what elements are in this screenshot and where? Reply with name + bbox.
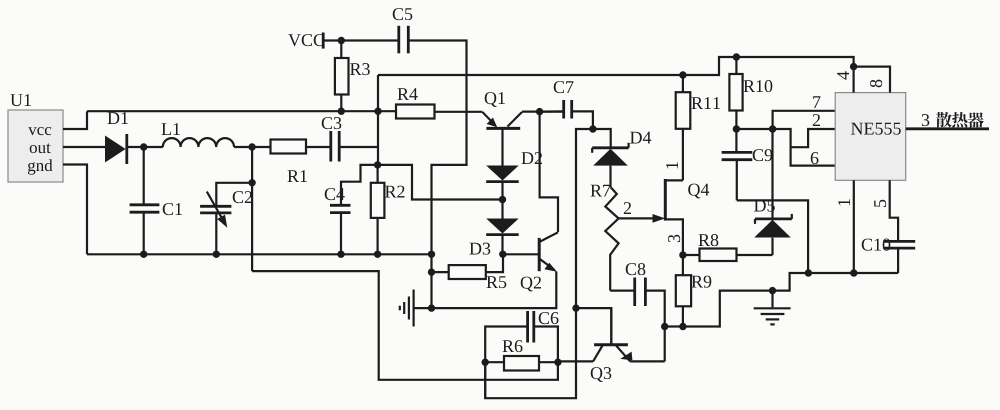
label C1 (163, 203, 182, 215)
node C2 tap (248, 179, 255, 186)
resistor R9 (676, 255, 691, 327)
wire C2 top (216, 183, 252, 206)
inductor L1 (163, 138, 234, 147)
label R6 (503, 340, 523, 352)
wire staircase to D2/D3 (378, 165, 503, 200)
wire pin1 (853, 180, 855, 273)
wire C6 left (485, 327, 527, 399)
wire C9 bottom elbow (737, 200, 808, 273)
wire bottom bus (87, 253, 432, 255)
resistor R3 (335, 41, 349, 112)
label R10 (744, 80, 773, 92)
diode D3 (486, 219, 519, 255)
pin label gnd (28, 159, 53, 174)
label pin2 (813, 114, 820, 126)
label pin1 555 (838, 199, 850, 205)
node x576 rail (572, 304, 579, 311)
transistor Q3 (593, 308, 632, 361)
resistor R4 (396, 105, 435, 119)
node D2/D3 (499, 196, 506, 203)
label Q4 (688, 184, 709, 199)
label output text (936, 112, 984, 128)
diode D2 (486, 130, 519, 219)
label C10 (862, 239, 891, 251)
node D1/C1/L1 (140, 143, 147, 150)
node ground2 (769, 287, 776, 294)
node C1 ground (140, 251, 147, 258)
wire Q1 collector (522, 110, 563, 112)
label R7 (591, 185, 611, 197)
label L1 (162, 123, 180, 135)
resistor R1 (271, 140, 307, 154)
label C9 (753, 149, 773, 161)
node B (374, 161, 381, 168)
node C2 ground (213, 251, 220, 258)
IC U1 box (8, 110, 63, 182)
resistor R6 (485, 356, 558, 371)
node D3/R5/Q2 (499, 251, 506, 258)
node pin1 bus (850, 269, 857, 276)
label R3 (350, 63, 370, 75)
label C3 (322, 117, 342, 129)
node gnd rail top (428, 251, 435, 258)
node L1/R1 (248, 143, 255, 150)
label Q1 (485, 92, 505, 107)
node pins 4/8 (850, 63, 857, 70)
label D4 (630, 132, 651, 144)
label pin3 output 3 (922, 114, 929, 126)
node R9 bottom (679, 323, 686, 330)
wire C5 right down (408, 41, 466, 309)
node Q4/R8/R9 (679, 251, 686, 258)
node R6 right (554, 359, 561, 366)
label D5 (754, 200, 775, 212)
node Q1/C7 (536, 108, 543, 115)
node pin7 (769, 125, 776, 132)
label C7 (554, 81, 574, 93)
node gnd rail R5 (428, 268, 435, 275)
wire L1 to R1 (234, 146, 271, 148)
ground symbol left (400, 290, 432, 327)
wire C6 right (534, 327, 558, 363)
wire pin4 (852, 67, 854, 93)
node R10 top (733, 53, 740, 60)
capacitor C6 (528, 311, 534, 343)
wire pin2/6 (773, 129, 836, 166)
label NE555 (851, 123, 901, 135)
capacitor C3 (331, 131, 339, 162)
label pin6 (811, 152, 819, 164)
wire R7 wiper to Q4 (619, 214, 666, 223)
label Q3 (591, 367, 612, 382)
label R11 (692, 97, 720, 109)
label pin3 Q4 (668, 235, 680, 242)
node bottom bus D5 (805, 269, 812, 276)
wire ground bus (432, 272, 557, 309)
label pin2 Q4 (624, 202, 631, 214)
label R2 (385, 186, 404, 198)
IC NE555 box (835, 93, 906, 181)
resistor R8 (683, 249, 773, 262)
node R10 bottom (733, 125, 740, 132)
diode D1 (105, 134, 127, 164)
label D3 (470, 243, 491, 255)
capacitor C4 (330, 205, 351, 254)
resistor R11 (676, 75, 691, 180)
label D1 (108, 112, 128, 124)
wire top bus left (87, 110, 396, 112)
wire U1 gnd to bottom bus (63, 165, 87, 255)
wire pin5 (890, 180, 898, 240)
resistor R2 (371, 165, 385, 254)
pin label out (30, 143, 51, 153)
node C8/Q3 (661, 323, 668, 330)
transistor Q2 (539, 232, 558, 271)
wire node B vertical (377, 75, 379, 165)
wire Q3 left lead (558, 360, 593, 362)
wire node to D4 (593, 129, 611, 147)
label pin1 Q4 (666, 162, 678, 168)
wire U1 vcc to top bus (63, 111, 87, 129)
capacitor C5 (399, 26, 409, 54)
wire pin2 branch (791, 129, 836, 147)
label C2 (233, 191, 252, 203)
wire VCC to C5 (323, 39, 399, 41)
wire R7 to C8 (610, 290, 634, 292)
node C4 ground (337, 251, 344, 258)
resistor R10 (729, 57, 742, 129)
node VCC/R3 (338, 37, 345, 44)
wire bus75 (378, 57, 854, 75)
node R2 ground (374, 251, 381, 258)
transistor Q4 UJT (665, 179, 683, 255)
label C8 (626, 263, 646, 275)
label pin7 (813, 96, 820, 108)
capacitor C9 (722, 129, 753, 200)
wire pin7 elbow (773, 111, 836, 129)
label R9 (692, 276, 712, 288)
wire C4 elbow (341, 165, 378, 204)
wire Q1 to Q2 collector (540, 112, 558, 232)
zener D4 (592, 143, 628, 188)
transistor Q1 (482, 112, 522, 128)
node ground rail (428, 304, 435, 311)
node bus/R3 (374, 108, 381, 115)
label R1 (288, 170, 307, 182)
wire U1 out (63, 146, 105, 148)
wire L1 node staircase (252, 271, 558, 380)
label VCC (288, 34, 324, 46)
ground symbol right (754, 291, 791, 325)
pin label vcc (28, 127, 51, 135)
wire C7 right to node (572, 111, 593, 129)
wire node to x576 rail (485, 129, 593, 398)
wire ground2 staircase (773, 273, 899, 291)
wire C7 left (540, 110, 564, 112)
label U1 (10, 94, 31, 106)
wire R10 to pin7 node (736, 128, 772, 130)
capacitor C7 (564, 100, 572, 119)
capacitor C10 (883, 241, 915, 273)
resistor R5 (432, 254, 504, 279)
wire Q3 right lead (630, 360, 665, 362)
label C5 (393, 8, 413, 20)
node R11 top (679, 71, 686, 78)
wire D1 to L1 (127, 146, 163, 148)
wire C8 right (645, 291, 664, 362)
wire pin3 output (906, 127, 989, 130)
label Q2 (521, 277, 541, 292)
wire R4 to Q1 (435, 111, 483, 113)
terminal VCC bar (322, 33, 325, 49)
label pin5 555 (874, 200, 886, 207)
wire node down (251, 147, 253, 271)
node R6 left (482, 359, 489, 366)
label pin8 (870, 80, 882, 88)
wire under bus (665, 291, 773, 327)
label R8 (699, 234, 719, 246)
capacitor C1 (130, 147, 160, 254)
label C4 (325, 188, 345, 200)
resistor R7 zigzag (605, 187, 618, 290)
label D2 (522, 152, 542, 164)
zener D5 (754, 129, 792, 255)
wire R1 to C3 (306, 146, 330, 148)
wire D3 to Q2 base (503, 253, 539, 255)
label R5 (487, 276, 507, 288)
label R4 (398, 88, 418, 100)
capacitor C2 variable (200, 192, 231, 255)
node C7/D4 (589, 125, 596, 132)
node R3 bottom (338, 108, 345, 115)
wire pin8 (854, 67, 890, 93)
wire C3 to node (339, 146, 378, 148)
wire rail to Q3 collector (576, 308, 611, 344)
label pin4 (837, 71, 849, 79)
capacitor C8 (635, 278, 646, 307)
label C6 (539, 312, 559, 324)
